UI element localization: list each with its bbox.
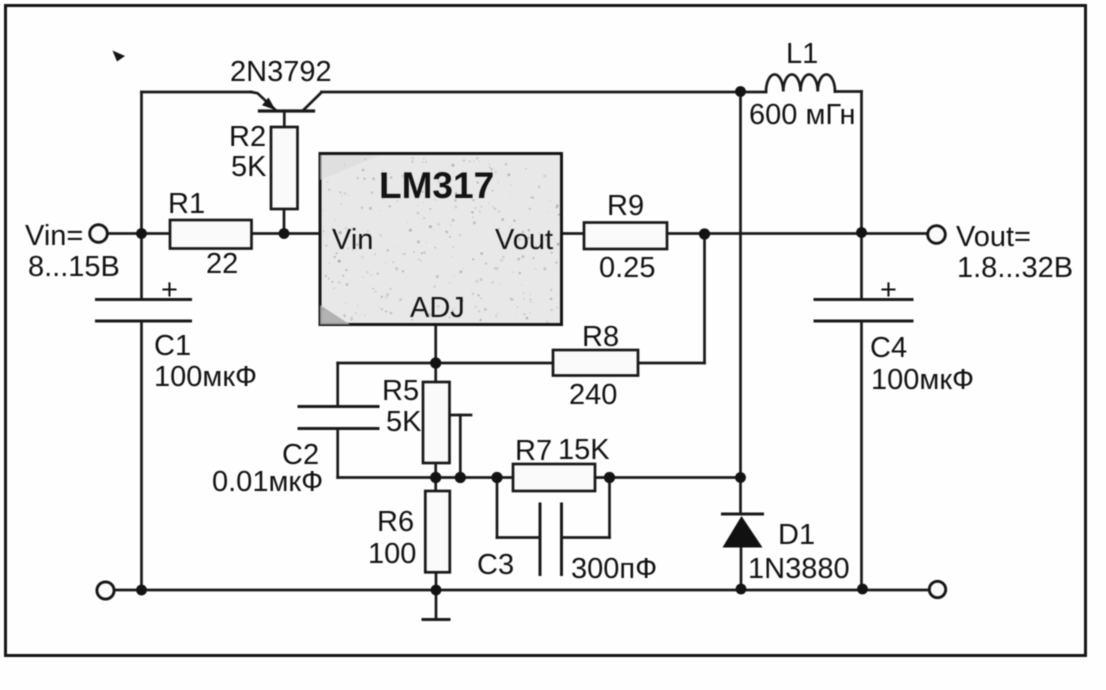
svg-text:100: 100 [368, 538, 416, 570]
svg-text:1N3880: 1N3880 [748, 553, 850, 585]
svg-text:100мкФ: 100мкФ [871, 364, 974, 396]
svg-text:C3: C3 [477, 549, 514, 581]
svg-text:Vout: Vout [495, 224, 553, 256]
svg-text:15K: 15K [558, 434, 610, 466]
svg-text:C4: C4 [870, 332, 907, 364]
svg-text:R6: R6 [377, 506, 414, 538]
svg-text:+: + [880, 274, 897, 306]
svg-text:C1: C1 [154, 330, 191, 362]
svg-text:R7: R7 [515, 435, 552, 467]
svg-text:ADJ: ADJ [410, 292, 465, 324]
svg-text:R1: R1 [168, 188, 205, 220]
svg-text:1.8...32В: 1.8...32В [957, 252, 1073, 284]
svg-text:R2: R2 [229, 121, 266, 153]
svg-text:300пФ: 300пФ [571, 553, 657, 585]
svg-text:LM317: LM317 [379, 165, 494, 206]
svg-text:0.25: 0.25 [599, 252, 655, 284]
svg-text:+: + [161, 274, 178, 306]
svg-text:D1: D1 [778, 519, 815, 551]
svg-text:22: 22 [206, 248, 238, 280]
svg-text:Vout=: Vout= [956, 221, 1031, 253]
svg-text:5K: 5K [386, 406, 422, 438]
svg-text:8...15В: 8...15В [28, 251, 120, 283]
svg-text:R9: R9 [607, 190, 644, 222]
svg-text:Vin: Vin [332, 224, 373, 256]
svg-text:Vin=: Vin= [25, 220, 83, 252]
svg-text:0.01мкФ: 0.01мкФ [212, 466, 323, 498]
svg-text:5K: 5K [231, 151, 267, 183]
svg-text:2N3792: 2N3792 [230, 56, 332, 88]
svg-text:R8: R8 [582, 321, 619, 353]
svg-text:600 мГн: 600 мГн [749, 99, 855, 131]
svg-text:R5: R5 [382, 375, 419, 407]
svg-text:100мкФ: 100мкФ [154, 361, 257, 393]
svg-text:240: 240 [569, 379, 617, 411]
svg-text:L1: L1 [786, 38, 818, 70]
